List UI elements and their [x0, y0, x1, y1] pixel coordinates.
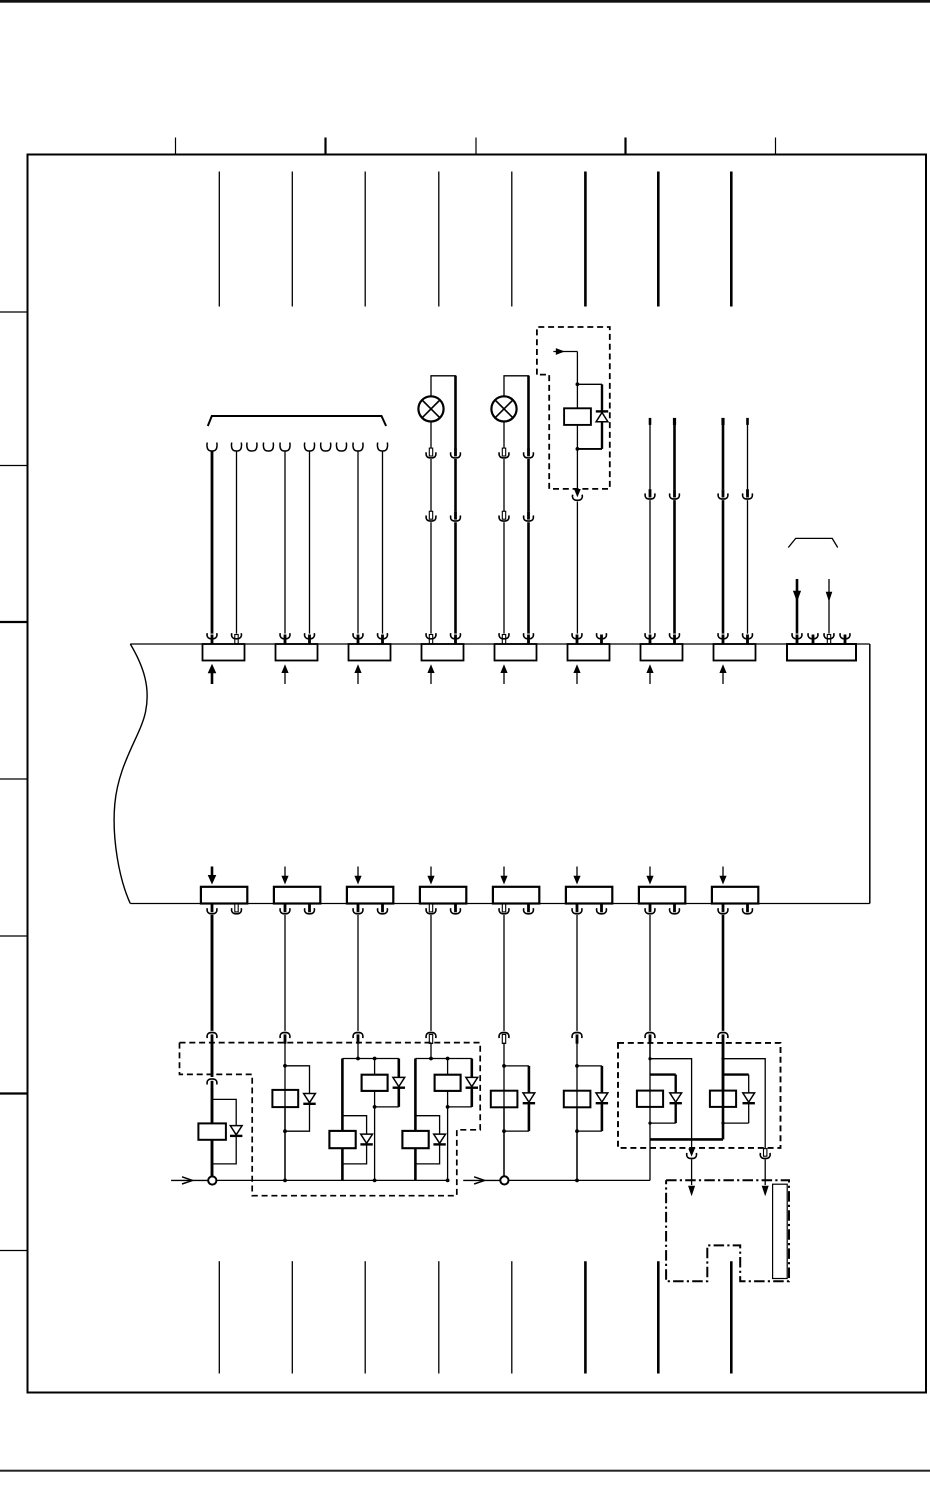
diode (across RA2 coil) — [361, 1134, 373, 1143]
inline connector on RL output — [688, 1149, 695, 1157]
cluster B thick branch wire — [414, 1059, 417, 1132]
arrow into connector C15 — [503, 867, 505, 878]
inline connector at x=674.5 — [673, 489, 676, 497]
junction node R2 top — [283, 1064, 287, 1068]
connector C7 (top row) — [641, 644, 683, 661]
cluster B lower diode branch — [415, 1116, 439, 1134]
connector C2 terminal A — [284, 635, 287, 645]
junction RR bottom — [721, 1122, 724, 1125]
connector C9 terminal at x=813 — [812, 635, 815, 645]
arrow into connector C14 — [430, 867, 432, 878]
wire segment below connector 1 — [211, 1043, 214, 1078]
wire: RL coil column — [649, 1043, 651, 1140]
wire from device pin at x=309.5 — [309, 451, 311, 633]
wire: R5 to ground — [503, 1107, 505, 1180]
device pin terminal 10 — [377, 443, 387, 451]
device pin terminal 8 — [336, 443, 346, 451]
diode (across RB1 coil) — [466, 1077, 478, 1086]
connector C17 output terminal B (unused) — [673, 904, 676, 912]
wire from device pin at x=358 — [357, 451, 359, 633]
inline connector (facing down) on harness wire 8 — [718, 1033, 728, 1039]
harness wire from C12 — [284, 915, 286, 1031]
inline connector (facing down) on harness wire 1 — [207, 1033, 217, 1039]
wire: cluster A coil column — [374, 1059, 376, 1075]
control module bottom edge — [130, 903, 870, 905]
connector C18 output terminal B (unused) — [746, 904, 749, 912]
arrow into connector C18 — [722, 867, 724, 878]
inline connector (facing down) on harness wire 6 — [572, 1033, 582, 1039]
inline connector pair on lamp L1 wires (lower) — [429, 511, 432, 519]
cluster A feed junction — [356, 1057, 360, 1061]
dashed harness group box 2 — [618, 1043, 781, 1148]
wire: K1 diode to lower junction — [601, 422, 603, 449]
arrow into connector C16 — [576, 867, 578, 878]
lamp L2 (bulb symbol) — [491, 396, 516, 421]
connector C11 (bottom row) — [201, 887, 247, 904]
wire: lower bus line 3 (to page below) — [364, 1261, 366, 1373]
wire: K1 coil bottom — [576, 425, 578, 489]
connector C11 output terminal B (unused) — [235, 904, 238, 912]
connector C8 terminal B — [746, 635, 749, 645]
harness wire from C17 — [649, 915, 651, 1031]
arrow into module below C6 — [576, 669, 578, 684]
connector C4 (top row) — [422, 644, 464, 661]
diode D1 (in relay K1) — [596, 413, 608, 422]
relay RR coil — [710, 1091, 736, 1107]
wire: box 2 return to ground bus — [649, 1139, 651, 1180]
RR output branch wire — [723, 1059, 765, 1148]
wire: R1 feed — [211, 1089, 214, 1124]
inline connector pair on lamp L2 wires (lower) — [502, 511, 505, 519]
junction cluster B coil col with ground bus — [446, 1179, 450, 1183]
connector C9 terminal at x=845 — [844, 635, 847, 645]
wire: K1 output to connector C6 — [576, 502, 578, 634]
junction node in K1 (bottom) — [576, 447, 580, 451]
wire: feed bus line 8 (from page above) — [730, 172, 733, 307]
arrow into connector C11 — [211, 867, 214, 878]
wire: RL output into junction block — [691, 1160, 693, 1186]
junction RR output branch — [721, 1057, 724, 1060]
K1 diode branch wire — [577, 383, 602, 385]
wire segment below connector 8 — [722, 1043, 725, 1091]
junction node R5 bottom — [502, 1129, 506, 1133]
relay RB2 coil (lower) — [402, 1131, 428, 1148]
wire: feed bus line 3 (from page above) — [364, 172, 366, 307]
wire: RR coil column — [722, 1043, 725, 1140]
wire: R6 to ground — [576, 1107, 578, 1180]
wire segments from lamp L2 connectors to box terminals — [503, 522, 505, 633]
junction node R2 bottom — [283, 1129, 287, 1133]
arrow into module below C3 — [357, 669, 359, 684]
connector C5 terminal B — [527, 635, 530, 645]
connector C15 output terminal B (unused) — [527, 904, 530, 912]
junction node R6 bottom — [575, 1129, 579, 1133]
wire with flow arrow (thin) to connector C9 — [828, 579, 830, 634]
connector C11 output terminal A — [211, 904, 214, 912]
connector C2 terminal B — [308, 635, 311, 645]
connector C8 terminal A — [722, 635, 725, 645]
connector C17 (bottom row) — [639, 887, 685, 904]
ground feed arrow into G2 — [463, 1179, 500, 1181]
lamp L1 (bulb symbol) — [418, 396, 443, 421]
connector C6 terminal B — [600, 635, 603, 645]
wire: feed bus line 6 (from page above) — [584, 172, 587, 307]
relay RA2 coil (lower) — [329, 1131, 355, 1148]
wire: upper diode return, cluster B — [470, 1088, 473, 1107]
relay RL coil — [637, 1091, 663, 1107]
connector C6 terminal A — [576, 635, 579, 645]
cluster A lower diode branch — [342, 1116, 366, 1134]
arrow into module below C4 — [430, 669, 432, 684]
wire with male terminal at x=650 — [649, 418, 652, 425]
wire segment below connector 4 — [430, 1043, 432, 1059]
RR diode return wire — [748, 1103, 750, 1123]
diode (across relay R6 coil) — [596, 1093, 608, 1102]
connector C3 terminal A — [357, 635, 360, 645]
junction block (dash-dot outline) — [666, 1180, 789, 1281]
relay R2 coil — [272, 1090, 298, 1107]
wire: lower diode return, cluster B — [415, 1145, 439, 1164]
connector C15 (bottom row) — [493, 887, 539, 904]
R5 diode branch feed — [504, 1065, 529, 1067]
ground feed arrow into G1 — [171, 1179, 208, 1181]
R2 diode branch wires — [285, 1066, 310, 1094]
wire: upper diode return, cluster A — [397, 1088, 400, 1107]
relay RA1 coil (upper) — [362, 1075, 388, 1091]
diode (across relay R5 coil) — [523, 1093, 535, 1102]
relay K1 input arrow — [553, 351, 577, 353]
arrow into connector C12 — [284, 867, 286, 878]
arrow into module below C8 — [722, 669, 724, 684]
inline connector (facing down) on harness wire 7 — [645, 1033, 655, 1039]
cluster A feed rail — [342, 1058, 398, 1060]
diode (across RA1 coil) — [393, 1077, 405, 1086]
connector C2 (top row) — [276, 644, 318, 661]
wire below lamp L2 — [503, 422, 505, 449]
connector C8 (top row) — [714, 644, 756, 661]
dashed harness group box 1 — [180, 1043, 481, 1196]
wire segment below connector 7 — [649, 1043, 651, 1059]
wire from device pin at x=236.5 — [236, 451, 238, 633]
wire: feed bus line 1 (from page above) — [218, 172, 220, 307]
inline connector on RR output — [764, 1149, 767, 1157]
connector C13 output terminal A — [357, 904, 360, 912]
wire: lower bus line 6 (to page below) — [584, 1261, 587, 1373]
harness wire from C13 — [357, 915, 359, 1031]
wire with male terminal at x=747.5 — [746, 418, 749, 425]
inline connector at x=747.5 — [746, 489, 749, 497]
junction node cluster B — [446, 1105, 450, 1109]
connector C4 terminal B — [454, 635, 457, 645]
connector C1 terminal A — [211, 635, 214, 645]
relay K1 coil — [564, 408, 591, 425]
arrow into module below C1 — [211, 670, 214, 684]
R2 diode return wire — [285, 1104, 310, 1131]
device pin terminal 4 — [263, 443, 273, 451]
RL output branch wire — [650, 1059, 692, 1148]
wire: feed bus line 4 (from page above) — [438, 172, 440, 307]
RL diode return wire — [675, 1103, 677, 1123]
ground bus wire from G1 — [216, 1179, 447, 1181]
wire: feed bus line 2 (from page above) — [291, 172, 293, 307]
device pin terminal 1 — [207, 443, 217, 451]
arrow into connector C17 — [649, 867, 651, 878]
connector C3 terminal B — [381, 635, 384, 645]
inline connector pair on lamp L2 wires (upper) — [502, 448, 505, 456]
arrow into connector C13 — [357, 867, 359, 878]
relay RB1 coil (upper) — [435, 1075, 461, 1091]
diode (across relay RL coil) — [670, 1093, 682, 1102]
wire below lamp L1 — [430, 422, 432, 449]
connector C14 (bottom row) — [420, 887, 466, 904]
connector C12 (bottom row) — [274, 887, 320, 904]
relay R6 coil — [564, 1091, 591, 1108]
R1 diode branch wires — [212, 1099, 236, 1125]
thick common return rail in box 2 — [650, 1138, 723, 1141]
diode (across relay RR coil) — [743, 1093, 755, 1102]
junction node in K1 (top) — [576, 382, 580, 386]
wire: lower bus line 5 (to page below) — [511, 1261, 513, 1373]
wire: lower bus line 1 (to page below) — [218, 1261, 220, 1373]
cluster B upper diode feed — [470, 1059, 473, 1078]
device pin terminal 2 — [231, 443, 241, 451]
connector C16 (bottom row) — [566, 887, 612, 904]
junction RL bottom — [648, 1122, 651, 1125]
junction of R6 wire with ground bus — [575, 1179, 579, 1183]
harness wire from C14 — [430, 915, 432, 1031]
lamp L2 feed jog wire — [504, 376, 529, 448]
junction of R2 wire with ground bus — [283, 1179, 287, 1183]
control module top edge — [130, 643, 870, 645]
cluster B feed rail — [415, 1058, 471, 1060]
junction node R5 top — [502, 1064, 506, 1068]
connector C7 terminal B — [673, 635, 676, 645]
wire segment below connector 6 — [576, 1043, 578, 1181]
device pin terminal 3 — [247, 443, 257, 451]
connector C13 output terminal B (unused) — [381, 904, 384, 912]
junction RL output branch — [648, 1057, 651, 1060]
diode (across RB2 coil) — [434, 1134, 446, 1143]
R6 diode return wire — [601, 1103, 604, 1131]
harness wire from C18 — [722, 915, 725, 1031]
device pin terminal 6 — [304, 443, 314, 451]
wire: lower bus line 8 (to page below) — [730, 1261, 733, 1373]
device pin terminal 9 — [353, 443, 363, 451]
control module right edge — [869, 644, 871, 904]
wire segments between lamp L2 connectors — [503, 459, 505, 511]
connector C18 (bottom row) — [712, 887, 758, 904]
wire: cluster B coil column — [447, 1059, 449, 1075]
wire: K1 feed down — [576, 352, 578, 409]
diode D3 (across relay R2 coil) — [304, 1094, 316, 1103]
wire: lower bus line 2 (to page below) — [291, 1261, 293, 1373]
wire from device pin at x=382.5 — [382, 451, 384, 633]
wire segment below connector 3 — [357, 1043, 359, 1059]
R6 diode branch feed — [577, 1065, 602, 1067]
connector C1 terminal B — [235, 635, 238, 644]
cluster B feed junction — [429, 1057, 433, 1061]
connector C5 terminal A — [502, 635, 505, 644]
wire: feed bus line 5 (from page above) — [511, 172, 513, 307]
harness wire from C16 — [576, 915, 578, 1031]
ground bus wire from G2 — [509, 1179, 651, 1181]
harness wire from C15 — [503, 915, 505, 1031]
connector C9 terminal at x=829 — [827, 635, 830, 644]
connector C1 (top row) — [203, 644, 245, 661]
device pin terminal 7 — [321, 443, 331, 451]
connector C9 (top row, wide) — [787, 644, 856, 661]
connector C7 terminal A — [649, 635, 652, 645]
wire segment below connector 2 — [284, 1043, 286, 1181]
connector C14 output terminal B (unused) — [454, 904, 457, 912]
wire with male terminal at x=674.5 — [673, 418, 676, 425]
RL diode feed wire — [650, 1073, 676, 1075]
inline connector (facing down) on harness wire 3 — [353, 1033, 363, 1039]
R5 diode return wire — [528, 1103, 531, 1131]
inline connector at x=723 — [722, 489, 725, 497]
inline connector on K1 output — [574, 489, 581, 497]
connector C12 output terminal A — [284, 904, 287, 912]
junction cluster A coil col with ground bus — [373, 1179, 377, 1183]
wire segment below connector 5 — [503, 1043, 505, 1181]
junction node R6 top — [575, 1064, 579, 1068]
component bracket (multi-pin device above connector C1) — [208, 416, 386, 426]
diode D2 (across relay R1 coil) — [230, 1126, 242, 1135]
connector C17 output terminal A — [649, 904, 652, 912]
device pin terminal 5 — [280, 443, 290, 451]
relay unit K1 dashed outline — [537, 327, 610, 489]
wire: RR output into junction block — [764, 1160, 766, 1186]
cluster A thick branch wire — [341, 1059, 344, 1132]
arrow into module below C5 — [503, 669, 505, 684]
ground node G2 (ring) — [500, 1176, 508, 1184]
wire from device pin at x=285 — [284, 451, 286, 633]
RR diode feed wire — [723, 1073, 749, 1075]
connector C3 (top row) — [349, 644, 391, 661]
wire from device pin at x=212 — [211, 451, 214, 633]
wire with male terminal at x=723 — [721, 418, 724, 425]
arrow into module below C2 — [284, 669, 286, 684]
ground node G1 (ring) — [208, 1176, 216, 1184]
connector C12 output terminal B (unused) — [308, 904, 311, 912]
wire with flow arrow (thick) to connector C9 — [796, 579, 799, 634]
connector C18 output terminal A — [722, 904, 725, 912]
wire: lower bus line 7 (to page below) — [657, 1261, 660, 1373]
wire segments from lamp L1 connectors to box terminals — [430, 522, 432, 633]
connector C14 output terminal A — [429, 904, 432, 912]
connector C13 (bottom row) — [347, 887, 393, 904]
inline connector (facing down) on harness wire 4 — [426, 1033, 436, 1039]
inline connector (facing down) on harness wire 5 — [499, 1033, 509, 1039]
connector C9 terminal at x=797 — [796, 635, 799, 645]
control module block (torn-edge outline) — [114, 644, 147, 904]
inline connector pair on lamp L1 wires (upper) — [429, 448, 432, 456]
relay R5 coil — [491, 1091, 518, 1108]
connector C16 output terminal A — [576, 904, 579, 912]
wire: cluster A to ground bus — [341, 1148, 344, 1180]
wire: lower diode return, cluster A — [342, 1145, 366, 1164]
lamp L1 feed jog wire — [431, 376, 456, 448]
junction node cluster A — [373, 1105, 377, 1109]
arrow into module below C7 — [649, 669, 651, 684]
connector C15 output terminal A — [502, 904, 505, 912]
inline connector (facing down) on harness wire 2 — [280, 1033, 290, 1039]
wire segments between lamp L1 connectors — [430, 459, 432, 511]
wire: R1 coil to ground node — [211, 1140, 214, 1177]
relay R1 coil — [198, 1123, 226, 1139]
connector C4 terminal A — [429, 635, 432, 644]
inline connector (facing down) on wire to relay R1 — [207, 1079, 217, 1085]
harness bracket (top right) — [788, 538, 837, 547]
wire: R2 to ground bus — [284, 1107, 286, 1180]
R1 diode return wire — [212, 1136, 236, 1164]
connector C5 (top row) — [495, 644, 537, 661]
wire: feed bus line 7 (from page above) — [657, 172, 660, 307]
junction block inner compartment — [773, 1184, 788, 1278]
wire: lower bus line 4 (to page below) — [438, 1261, 440, 1373]
wire: cluster B to ground bus — [414, 1148, 417, 1180]
connector C6 (top row) — [568, 644, 610, 661]
inline connector at x=650 — [649, 489, 652, 497]
harness wire from C11 — [211, 915, 214, 1031]
connector C16 output terminal B (unused) — [600, 904, 603, 912]
cluster A upper diode feed — [397, 1059, 400, 1078]
